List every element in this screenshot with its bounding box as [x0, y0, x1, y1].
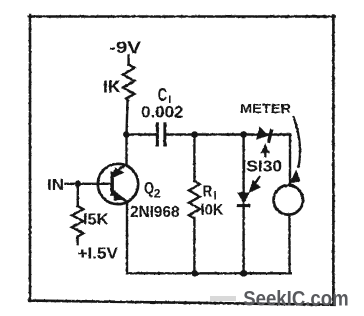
transistor Q2 collector arrow: [114, 190, 126, 200]
svg-text:IN: IN: [47, 177, 64, 194]
resistor 15K: [72, 206, 84, 237]
diode D2 1S130 shunt cathode bar: [237, 204, 250, 207]
wire emitter to bottom rail: [126, 204, 128, 274]
border frame left: [29, 15, 32, 301]
wire capacitor C1 to node B to node C to corner: [166, 133, 290, 135]
wire node D down to 15K: [77, 186, 79, 206]
resistor 1K: [123, 65, 135, 101]
capacitor C1 right plate: [163, 124, 166, 145]
svg-text:I0K: I0K: [201, 202, 224, 219]
border frame right: [332, 16, 335, 305]
wire node A to collector: [125, 135, 127, 165]
svg-text:Q: Q: [144, 179, 154, 198]
svg-text:METER: METER: [240, 101, 292, 116]
wire node B down to R1: [193, 135, 195, 182]
watermark artifact bar: [210, 296, 236, 301]
node D junction dot: [75, 181, 82, 188]
wire corner down to meter: [289, 135, 291, 186]
label R1: [203, 184, 217, 203]
meter M1 circle: [274, 185, 303, 214]
node B junction dot: [191, 131, 198, 138]
border frame top: [29, 15, 335, 18]
wire meter bottom down: [288, 215, 290, 274]
label pointer arrow to diode D1: [261, 144, 270, 158]
transistor Q2 collector line: [113, 194, 129, 202]
wire IN to base: [66, 183, 111, 185]
svg-text:0.002: 0.002: [141, 104, 184, 122]
svg-text:2NI968: 2NI968: [130, 204, 180, 221]
node C junction dot: [240, 131, 247, 138]
svg-text:I5K: I5K: [83, 212, 109, 229]
svg-text:C: C: [158, 85, 168, 105]
diode D2 1S130 shunt triangle: [237, 192, 249, 204]
label pointer arrow to diode D2: [249, 176, 261, 193]
svg-text:IK: IK: [103, 77, 121, 97]
bottom rail junction dot under D2: [240, 270, 247, 277]
transistor Q2 emitter arrow: [111, 167, 124, 178]
svg-text:+I.5V: +I.5V: [78, 246, 119, 263]
wire R1 to bottom rail: [193, 218, 195, 273]
wire -9V supply lead: [127, 56, 129, 65]
bottom rail junction dot under R1: [191, 270, 198, 277]
svg-text:ISI30: ISI30: [242, 159, 283, 176]
svg-text:R: R: [203, 184, 213, 201]
wire 1K to node A: [125, 101, 128, 132]
transistor Q2 circle: [98, 164, 138, 204]
diode D1 1S130 series cathode bar: [268, 129, 271, 142]
wire diode D2 to bottom rail: [242, 207, 244, 274]
resistor R1 10K: [189, 181, 200, 218]
diode D1 1S130 series triangle: [256, 126, 270, 142]
wire bottom rail: [127, 272, 291, 274]
transistor Q2 emitter line: [113, 164, 127, 173]
wire 15K to +1.5V: [76, 237, 78, 244]
label C1: [158, 85, 171, 106]
node A junction dot: [123, 131, 130, 138]
transistor Q2 base bar: [110, 171, 113, 196]
label pointer curved arrow from METER to meter M1: [289, 116, 301, 184]
label Q2: [144, 179, 161, 201]
wire node A to capacitor C1: [127, 133, 157, 135]
svg-text:I: I: [214, 191, 217, 203]
svg-text:2: 2: [154, 187, 161, 201]
svg-text:SeekIC.com: SeekIC.com: [243, 287, 349, 311]
capacitor C1 left plate: [156, 124, 159, 145]
svg-text:-9V: -9V: [109, 39, 141, 57]
border frame bottom: [29, 301, 335, 305]
wire node C down to diode D2: [242, 135, 244, 194]
